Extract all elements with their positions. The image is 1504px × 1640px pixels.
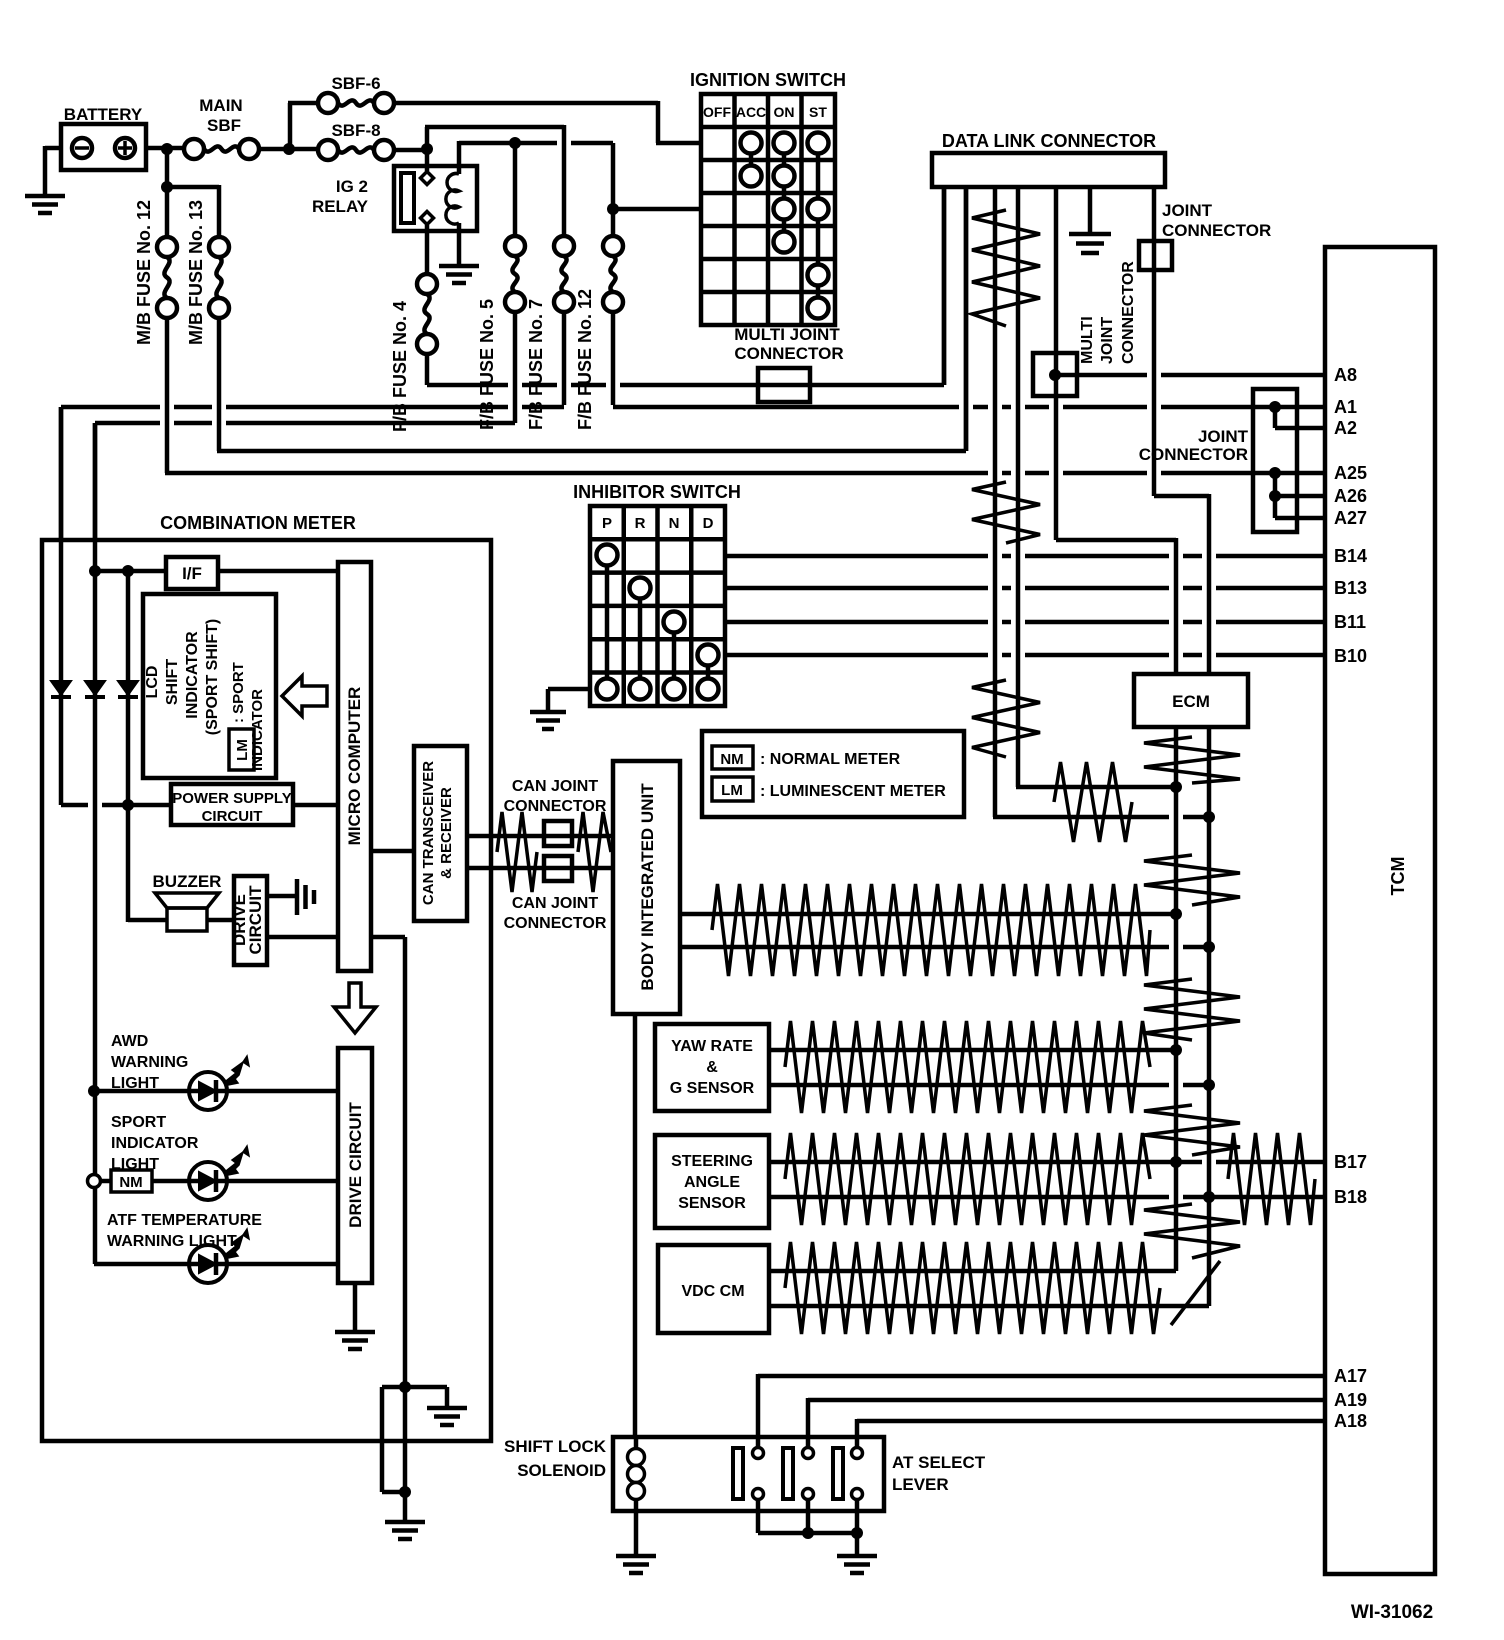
twisted pair B17 B18	[1228, 1133, 1315, 1225]
wire bus A1 left (fuse7 to meter)	[61, 312, 564, 540]
svg-text:TCM: TCM	[1388, 857, 1408, 896]
multi joint connector label	[734, 325, 843, 363]
wire AT common ground	[855, 1533, 860, 1556]
CAN joint connector box 2	[544, 856, 572, 881]
svg-text:NM: NM	[720, 751, 743, 768]
diode D3	[118, 571, 138, 922]
wire bus A1 right (fuse12 to TCM)	[613, 312, 1325, 407]
svg-text:F/B FUSE No. 5: F/B FUSE No. 5	[477, 299, 497, 430]
svg-text:G SENSOR: G SENSOR	[670, 1080, 755, 1097]
joint connector (TCM) box	[1139, 389, 1297, 532]
wire B18	[769, 1195, 1325, 1200]
svg-text:R: R	[635, 515, 646, 532]
wire DLC pin5 to ECM	[1056, 187, 1176, 674]
wire ECM CAN L down	[1207, 727, 1212, 1306]
svg-text:BUZZER: BUZZER	[153, 872, 222, 891]
ground meter right	[427, 1408, 467, 1425]
svg-text:CIRCUIT: CIRCUIT	[202, 808, 263, 825]
svg-text:CONNECTOR: CONNECTOR	[504, 915, 607, 932]
wire bus A2 left (fuse5 to meter)	[95, 312, 515, 540]
label AWD warning light	[111, 1033, 188, 1092]
wire I/F input	[95, 569, 166, 574]
wire inhibitor common to ground	[548, 689, 590, 712]
wire meter ground right	[405, 1387, 447, 1408]
svg-text:ANGLE: ANGLE	[684, 1174, 740, 1191]
ignition switch grid	[690, 70, 846, 325]
svg-text:MAIN: MAIN	[199, 96, 242, 115]
node power supply	[122, 799, 134, 811]
svg-text:CAN JOINT: CAN JOINT	[512, 778, 598, 795]
svg-text:I/F: I/F	[182, 564, 202, 583]
node AT common 2	[851, 1527, 863, 1539]
drive circuit 2 box	[338, 1048, 372, 1283]
wire buzzer feed	[128, 918, 167, 923]
ignition switch column labels	[703, 104, 827, 120]
twisted pair CAN left	[497, 812, 537, 892]
svg-text:DATA LINK CONNECTOR: DATA LINK CONNECTOR	[942, 131, 1156, 151]
wire SBF-6 to ignition switch	[394, 101, 701, 143]
svg-text:P: P	[602, 515, 612, 532]
svg-text:CAN JOINT: CAN JOINT	[512, 895, 598, 912]
wire DLC pin3 (CAN L)	[993, 187, 998, 817]
twisted pair DLC mid	[972, 482, 1040, 543]
ECM box	[1134, 674, 1248, 727]
svg-text:AWD: AWD	[111, 1033, 148, 1050]
legend LM	[712, 777, 946, 801]
svg-text:LCD: LCD	[144, 666, 161, 699]
node B17	[1170, 1156, 1182, 1168]
node ignition ON tap	[607, 203, 619, 215]
wire yaw CAN H	[769, 1048, 1176, 1053]
wire fuse12 drop	[611, 143, 616, 236]
svg-text:LEVER: LEVER	[892, 1475, 949, 1494]
svg-text:B10: B10	[1334, 646, 1367, 666]
node AT common 1	[802, 1527, 814, 1539]
ground solenoid	[616, 1556, 656, 1573]
fuse M/B FUSE No. 12	[134, 151, 177, 345]
node battery feed	[161, 143, 173, 155]
NM box	[111, 1170, 152, 1192]
svg-text:SENSOR: SENSOR	[678, 1195, 746, 1212]
joint connector (DLC) box	[1139, 201, 1271, 270]
svg-text:CAN TRANSCEIVER: CAN TRANSCEIVER	[420, 761, 437, 905]
wire battery negative to ground	[45, 146, 61, 196]
wire drive circuit to micro	[267, 935, 338, 940]
svg-text:A25: A25	[1334, 463, 1367, 483]
node relay contact feed	[421, 143, 433, 155]
svg-text:INDICATOR: INDICATOR	[184, 631, 201, 719]
svg-text:MULTI: MULTI	[1079, 316, 1096, 364]
svg-text:&: &	[706, 1059, 718, 1076]
twisted pair DLC upper	[972, 210, 1040, 326]
twisted pair can1	[1144, 855, 1240, 905]
solenoid coil	[628, 1437, 645, 1511]
svg-text:POWER SUPPLY: POWER SUPPLY	[172, 790, 291, 807]
twisted pair steering	[785, 1133, 1150, 1225]
svg-text:ECM: ECM	[1172, 692, 1210, 711]
shield drain diagonal	[1171, 1261, 1220, 1325]
ground DLC	[1069, 234, 1111, 253]
LM sport indicator label	[229, 662, 266, 771]
svg-text:: NORMAL METER: : NORMAL METER	[760, 751, 901, 768]
CAN transceiver box	[414, 746, 467, 921]
svg-text:BATTERY: BATTERY	[64, 105, 143, 124]
wire B11	[725, 620, 1325, 625]
LCD shift indicator label	[144, 619, 221, 735]
inhibitor switch contacts	[597, 545, 719, 700]
wire B17	[769, 1160, 1325, 1165]
svg-text:CONNECTOR: CONNECTOR	[734, 344, 843, 363]
wire drive2 ground	[353, 1283, 358, 1330]
svg-text:CIRCUIT: CIRCUIT	[246, 885, 265, 955]
svg-text:WARNING: WARNING	[111, 1054, 188, 1071]
wire to ignition ON	[613, 207, 701, 212]
svg-text:STEERING: STEERING	[671, 1153, 753, 1170]
relay IG2 contact pin top	[421, 172, 434, 185]
svg-text:: LUMINESCENT METER: : LUMINESCENT METER	[760, 783, 946, 800]
wire B10	[725, 653, 1325, 658]
wire micro to x405	[371, 937, 405, 1387]
fuse F/B FUSE No. 5	[477, 236, 525, 430]
node yaw CAN L	[1203, 1079, 1215, 1091]
wire fuse7 drop	[562, 125, 567, 236]
node I/F 1	[89, 565, 101, 577]
twisted pair DLC lower	[972, 680, 1040, 757]
wire yaw CAN L	[769, 1083, 1209, 1088]
svg-text:SBF: SBF	[207, 116, 241, 135]
AT select lever contact 1	[733, 1448, 764, 1500]
svg-text:RELAY: RELAY	[312, 197, 369, 216]
body integrated unit box	[613, 761, 680, 1014]
wire power supply to micro	[293, 803, 338, 808]
power supply circuit box	[171, 784, 293, 825]
node meter ground 2	[399, 1486, 411, 1498]
battery B1	[61, 105, 146, 170]
wire relay coil to ground	[457, 223, 462, 264]
svg-text:JOINT: JOINT	[1198, 427, 1249, 446]
fuse SBF-8	[318, 121, 394, 160]
relay IG2 contact bar	[401, 173, 414, 223]
fuse F/B FUSE No. 12	[575, 236, 623, 430]
svg-text:CONNECTOR: CONNECTOR	[1120, 261, 1137, 364]
shift lock solenoid box	[613, 1437, 884, 1511]
ground relay coil	[439, 266, 479, 283]
node A26 joint	[1269, 490, 1281, 502]
wire NM to LED	[100, 1179, 338, 1184]
TCM box	[1325, 247, 1435, 1574]
label sport indicator light	[111, 1114, 199, 1173]
wire relay top line y143	[459, 141, 613, 146]
wire ECM CAN H down	[1174, 727, 1179, 1271]
wire VDC CAN H	[769, 1269, 1176, 1274]
svg-text:F/B FUSE No. 12: F/B FUSE No. 12	[575, 289, 595, 430]
svg-text:M/B FUSE No. 12: M/B FUSE No. 12	[134, 200, 154, 345]
label WI-31062	[1351, 1602, 1433, 1623]
arrow down (micro to drive2)	[334, 983, 376, 1033]
svg-text:JOINT: JOINT	[1099, 317, 1116, 364]
svg-text:SPORT: SPORT	[111, 1114, 166, 1131]
svg-text:N: N	[669, 515, 680, 532]
multi joint connector 2 box	[1033, 353, 1077, 396]
fuse M/B FUSE No. 13	[186, 200, 229, 345]
svg-text:B18: B18	[1334, 1187, 1367, 1207]
wire DLC pin2 to y451 bus	[964, 187, 969, 451]
steering angle sensor box	[655, 1135, 769, 1228]
fuse SBF-6	[318, 74, 394, 113]
svg-text:(SPORT SHIFT): (SPORT SHIFT)	[204, 619, 221, 735]
ground battery	[25, 196, 65, 213]
inhibitor switch grid	[573, 482, 741, 706]
svg-text:VDC CM: VDC CM	[681, 1283, 744, 1300]
wire VDC CAN L	[769, 1304, 1209, 1309]
svg-text:ST: ST	[809, 104, 827, 120]
legend NM	[712, 746, 901, 769]
combination meter box	[42, 513, 491, 1441]
node MJC2	[1049, 369, 1061, 381]
ground drive circuit 2	[335, 1332, 375, 1349]
svg-text:F/B FUSE No. 4: F/B FUSE No. 4	[390, 301, 410, 432]
svg-text:B13: B13	[1334, 578, 1367, 598]
node AWD	[88, 1085, 100, 1097]
wire BIU down	[633, 1014, 638, 1437]
wire ATF LED	[94, 1262, 338, 1267]
label AT select lever	[892, 1453, 986, 1494]
svg-text:MICRO COMPUTER: MICRO COMPUTER	[345, 687, 364, 846]
node A25 joint	[1269, 467, 1281, 479]
svg-text:YAW RATE: YAW RATE	[671, 1038, 753, 1055]
LCD shift indicator box	[143, 594, 276, 778]
wire A26 stub	[1275, 473, 1325, 518]
wire MAIN SBF to SBF junction	[259, 147, 318, 152]
wire relay contact bottom to fuse4	[425, 225, 430, 274]
wire B13	[725, 586, 1325, 591]
svg-text:ACC: ACC	[736, 104, 766, 120]
node CAN H join	[1170, 781, 1182, 793]
ground meter bottom	[385, 1522, 425, 1539]
relay IG2 box	[312, 166, 477, 231]
svg-text:IGNITION SWITCH: IGNITION SWITCH	[690, 70, 846, 90]
svg-text:D: D	[703, 515, 714, 532]
fuse MAIN SBF	[184, 96, 259, 159]
wire AWD LED	[94, 1089, 338, 1094]
svg-text:MULTI JOINT: MULTI JOINT	[734, 325, 840, 344]
twisted pair can3	[1144, 1105, 1240, 1155]
I/F box	[166, 557, 218, 589]
AT select lever contact 2	[783, 1448, 814, 1500]
wire AT select common	[758, 1500, 857, 1533]
wire relay coil feed	[425, 127, 564, 151]
wire DLC CAN H to ECM node	[1016, 785, 1176, 790]
svg-text:SHIFT: SHIFT	[164, 659, 181, 705]
node fuse5 tap	[509, 137, 521, 149]
relay IG2 contact pin bottom	[421, 212, 434, 225]
svg-text:IG 2: IG 2	[336, 177, 368, 196]
fuse F/B FUSE No. 4	[390, 274, 437, 432]
label ATF temperature warning light	[107, 1212, 262, 1250]
wire relay coil top	[457, 141, 462, 174]
arrow to LCD (left)	[282, 676, 327, 716]
svg-text:B11: B11	[1334, 612, 1366, 632]
svg-text:LM: LM	[721, 782, 743, 799]
wire B14	[725, 554, 1325, 559]
node A1 joint	[1269, 401, 1281, 413]
svg-text:A2: A2	[1334, 418, 1357, 438]
svg-text:A8: A8	[1334, 365, 1357, 385]
twisted pair CAN right	[578, 812, 611, 892]
multi joint connector 2 label	[1079, 261, 1137, 364]
inhibitor switch column labels	[602, 515, 714, 532]
wire A2 stub	[1275, 405, 1325, 428]
legend box	[702, 731, 964, 817]
svg-text:OFF: OFF	[703, 104, 731, 120]
wire power supply left	[61, 803, 171, 808]
relay IG2 coil	[446, 174, 459, 225]
node SBF branch	[283, 143, 295, 155]
node fuse13 branch	[161, 181, 173, 193]
svg-text:A27: A27	[1334, 508, 1367, 528]
label shift lock solenoid	[504, 1437, 607, 1480]
wire meter ground bottom	[403, 1387, 408, 1520]
svg-text:B17: B17	[1334, 1152, 1367, 1172]
twisted pair yaw	[785, 1021, 1150, 1113]
svg-text:INHIBITOR SWITCH: INHIBITOR SWITCH	[573, 482, 741, 502]
twisted pair CAN drop	[1054, 762, 1132, 842]
wire bus DLC feed y451 (fuse13)	[217, 187, 966, 451]
node CAN L join	[1203, 811, 1215, 823]
svg-text:CONNECTOR: CONNECTOR	[504, 798, 607, 815]
LED AWD warning	[189, 1056, 249, 1110]
svg-text:M/B FUSE No. 13: M/B FUSE No. 13	[186, 200, 206, 345]
label CAN joint connector 1	[504, 778, 607, 815]
micro computer box	[338, 562, 371, 971]
svg-text:A19: A19	[1334, 1390, 1367, 1410]
TCM pin labels	[1334, 365, 1367, 1431]
diode D1	[51, 407, 71, 805]
wire fuse13 branch	[165, 185, 219, 237]
wire DLC pin1 to MJC bus	[942, 187, 947, 385]
wire solenoid ground	[634, 1511, 639, 1556]
svg-text:WI-31062: WI-31062	[1351, 1602, 1433, 1623]
label CAN joint connector 2	[504, 895, 607, 932]
svg-text:SBF-8: SBF-8	[331, 121, 380, 140]
ground AT select lever	[837, 1556, 877, 1573]
wire CAN H to BIU	[467, 834, 613, 839]
svg-text:CONNECTOR: CONNECTOR	[1162, 221, 1271, 240]
twisted pair below ECM	[1144, 737, 1240, 783]
wire DLC pin4 (CAN H)	[1016, 187, 1021, 787]
svg-text:CONNECTOR: CONNECTOR	[1139, 445, 1248, 464]
buzzer	[153, 872, 222, 931]
svg-text:SOLENOID: SOLENOID	[517, 1461, 606, 1480]
ground drive circuit (sideways)	[297, 879, 314, 915]
svg-text:: SPORT: : SPORT	[230, 662, 247, 723]
multi joint connector box	[758, 368, 810, 402]
ground inhibitor switch	[530, 712, 566, 729]
svg-text:INDICATOR: INDICATOR	[111, 1135, 199, 1152]
svg-text:SHIFT LOCK: SHIFT LOCK	[504, 1437, 607, 1456]
svg-text:A17: A17	[1334, 1366, 1367, 1386]
data link connector box	[932, 131, 1165, 187]
wire DLC ground pin	[1088, 187, 1093, 232]
drive circuit (buzzer) box	[230, 876, 267, 965]
svg-text:NM: NM	[119, 1174, 142, 1191]
wire relay contact top	[425, 151, 430, 171]
wire BIU CAN L	[680, 945, 1209, 950]
wire A18	[857, 1419, 1325, 1447]
connector sport (open circle)	[88, 1175, 101, 1188]
wire to SBF-6	[288, 103, 318, 151]
yaw rate & g sensor box	[655, 1024, 769, 1111]
wire A27 stub	[1275, 516, 1325, 521]
svg-text:B14: B14	[1334, 546, 1367, 566]
wire BIU CAN H	[680, 912, 1176, 917]
svg-text:JOINT: JOINT	[1162, 201, 1213, 220]
svg-text:F/B FUSE No. 7: F/B FUSE No. 7	[526, 299, 546, 430]
twisted pair can2	[1144, 979, 1240, 1040]
svg-text:A1: A1	[1334, 397, 1357, 417]
wire battery positive to MAIN SBF	[146, 146, 184, 151]
VDC CM box	[658, 1245, 769, 1333]
fuse F/B FUSE No. 7	[526, 236, 574, 430]
twisted pair BIU	[712, 884, 1150, 976]
svg-text:BODY INTEGRATED UNIT: BODY INTEGRATED UNIT	[638, 783, 657, 991]
wire bus A25 (M/B fuse12 to TCM)	[165, 318, 1325, 473]
wire SBF-8 to relay node	[394, 148, 427, 153]
wire micro to CAN transceiver	[371, 849, 414, 854]
svg-text:INDICATOR: INDICATOR	[249, 689, 266, 771]
wire A17	[758, 1374, 1325, 1447]
wire A19	[808, 1398, 1325, 1447]
node meter ground 1	[399, 1381, 411, 1393]
wire MJC bus y385	[427, 187, 944, 385]
svg-text:SBF-6: SBF-6	[331, 74, 380, 93]
node BIU CAN L	[1203, 941, 1215, 953]
twisted pair can4	[1144, 1204, 1240, 1258]
TCM label	[1388, 857, 1408, 896]
wire DLC pin7 via joint connector	[1154, 187, 1209, 674]
wire I/F to micro computer	[218, 569, 338, 574]
wire drive circuit ground	[267, 894, 297, 899]
svg-text:COMBINATION METER: COMBINATION METER	[160, 513, 356, 533]
wire fuse5 drop	[513, 145, 518, 236]
svg-text:A18: A18	[1334, 1411, 1367, 1431]
svg-text:DRIVE CIRCUIT: DRIVE CIRCUIT	[346, 1102, 365, 1228]
wire meter ground branch rect	[382, 1387, 405, 1492]
wire DLC CAN L to ECM node	[993, 815, 1209, 820]
node I/F 2	[122, 565, 134, 577]
node yaw CAN H	[1170, 1044, 1182, 1056]
node B18	[1203, 1191, 1215, 1203]
svg-text:A26: A26	[1334, 486, 1367, 506]
twisted pair VDC	[785, 1242, 1160, 1334]
wire buzzer to drive circuit	[207, 918, 234, 923]
svg-text:& RECEIVER: & RECEIVER	[438, 787, 455, 879]
wire CAN L to BIU	[467, 866, 613, 871]
ignition switch contacts	[741, 133, 829, 319]
svg-text:ON: ON	[774, 104, 795, 120]
LED sport indicator	[189, 1146, 249, 1200]
CAN joint connector box 1	[544, 821, 572, 846]
diode D2	[85, 423, 105, 1264]
node BIU CAN H	[1170, 908, 1182, 920]
LED ATF warning	[189, 1229, 249, 1283]
svg-text:AT SELECT: AT SELECT	[892, 1453, 986, 1472]
AT select lever contact 3	[833, 1448, 863, 1500]
svg-text:ATF TEMPERATURE: ATF TEMPERATURE	[107, 1212, 262, 1229]
wire A8	[1055, 373, 1325, 378]
